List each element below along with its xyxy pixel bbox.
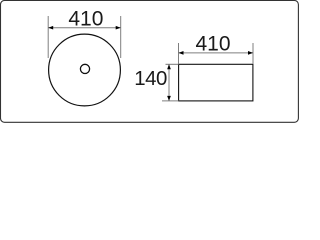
left arrow (side view 410 dim) [179,51,184,55]
right extension line (top view 410 dim) [120,16,122,58]
up arrow (side view 140 dim) [167,64,171,69]
bottom extension line (side view 140 dim) [162,100,179,102]
svg-text:140: 140 [134,68,167,90]
right arrow (top view 410 dim) [116,26,121,30]
right arrow (side view 410 dim) [248,51,253,55]
left extension line (side view 410 dim) [178,43,180,64]
down arrow (side view 140 dim) [167,96,171,101]
svg-text:410: 410 [68,8,103,31]
side view rectangle [179,64,253,101]
basin outer circle (top view) [49,34,121,106]
right extension line (side view 410 dim) [252,43,254,64]
left extension line (top view 410 dim) [47,16,49,58]
drain hole circle [80,64,89,73]
outer rounded frame [1,1,299,123]
dimension line 410 (side view) [179,52,254,54]
svg-text:410: 410 [195,33,230,56]
dimension line 410 (top view) [48,27,121,29]
left arrow (top view 410 dim) [48,26,53,30]
dimension line 140 (side view) [168,64,170,101]
top extension line (side view 140 dim) [166,63,179,65]
